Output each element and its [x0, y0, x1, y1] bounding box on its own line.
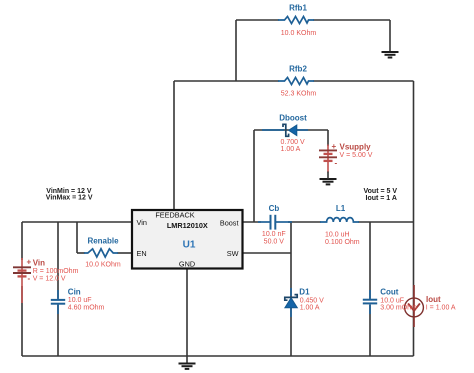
svg-text:10.0 nF: 10.0 nF [262, 231, 286, 238]
svg-text:0.700 V: 0.700 V [281, 139, 305, 146]
svg-text:Vin: Vin [33, 258, 45, 267]
svg-text:Boost: Boost [220, 219, 239, 228]
svg-text:10.0 KOhm: 10.0 KOhm [85, 262, 121, 269]
svg-text:Rfb2: Rfb2 [289, 64, 307, 73]
svg-text:GND: GND [179, 260, 195, 269]
svg-text:R = 100mOhm: R = 100mOhm [33, 268, 79, 275]
svg-text:1.00 A: 1.00 A [300, 305, 320, 312]
svg-text:10.0 uF: 10.0 uF [68, 297, 92, 304]
svg-text:U1: U1 [183, 240, 196, 251]
svg-text:52.3 KOhm: 52.3 KOhm [281, 91, 317, 98]
svg-text:Iout: Iout [426, 295, 441, 304]
svg-text:Iout = 1 A: Iout = 1 A [366, 195, 397, 202]
svg-text:LMR12010X: LMR12010X [167, 221, 208, 230]
svg-text:-: - [335, 159, 338, 168]
svg-text:0.100 Ohm: 0.100 Ohm [325, 239, 360, 246]
svg-text:V = 5.00 V: V = 5.00 V [340, 152, 373, 159]
svg-text:+: + [332, 142, 337, 151]
svg-text:0.450 V: 0.450 V [300, 297, 324, 304]
svg-text:50.0 V: 50.0 V [264, 239, 285, 246]
svg-text:+: + [27, 258, 32, 267]
svg-text:V = 12.0 V: V = 12.0 V [33, 275, 66, 282]
svg-text:Cb: Cb [269, 204, 280, 213]
svg-text:10.0 uF: 10.0 uF [380, 297, 404, 304]
svg-text:VinMax = 12 V: VinMax = 12 V [46, 195, 93, 202]
svg-text:SW: SW [227, 249, 239, 258]
svg-text:FEEDBACK: FEEDBACK [155, 211, 194, 220]
svg-text:10.0 KOhm: 10.0 KOhm [281, 30, 317, 37]
svg-text:Vin: Vin [137, 218, 147, 227]
svg-text:I = 1.00 A: I = 1.00 A [426, 304, 456, 311]
svg-text:10.0 uH: 10.0 uH [325, 231, 350, 238]
svg-text:Renable: Renable [87, 237, 119, 246]
svg-text:Vout = 5 V: Vout = 5 V [364, 188, 398, 195]
svg-text:Rfb1: Rfb1 [289, 4, 307, 13]
svg-text:Vsupply: Vsupply [340, 143, 372, 152]
svg-text:-: - [28, 274, 31, 283]
svg-text:EN: EN [137, 249, 147, 258]
svg-text:Cin: Cin [68, 287, 81, 296]
svg-text:1.00 A: 1.00 A [281, 146, 301, 153]
svg-text:L1: L1 [336, 204, 346, 213]
svg-text:3.00 mOhm: 3.00 mOhm [380, 305, 417, 312]
svg-text:D1: D1 [299, 287, 310, 296]
svg-text:Cout: Cout [380, 287, 399, 296]
svg-text:Dboost: Dboost [279, 114, 307, 123]
svg-text:4.60 mOhm: 4.60 mOhm [68, 304, 105, 311]
